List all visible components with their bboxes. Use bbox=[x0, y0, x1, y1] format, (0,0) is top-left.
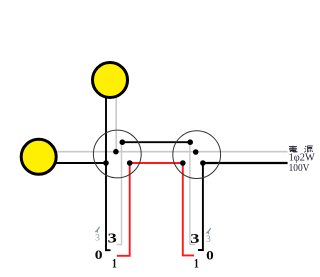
node junction dot left box red bbox=[127, 160, 133, 166]
node junction dot right box red bbox=[180, 160, 186, 166]
node junction dot right box neutral bbox=[193, 149, 199, 155]
svg-text:1: 1 bbox=[112, 257, 117, 271]
svg-text:0: 0 bbox=[206, 249, 214, 263]
power label 源 (kanji drawn) bbox=[304, 146, 312, 153]
svg-text:0: 0 bbox=[95, 248, 103, 262]
wire black lamp2 to node N3 bbox=[56, 162, 106, 164]
lamp イ left bbox=[21, 139, 56, 174]
node junction dot left box neutral bbox=[113, 149, 119, 155]
power label 電 (kanji drawn) bbox=[289, 146, 297, 152]
junction box left bbox=[93, 130, 141, 178]
node junction dot left box traveller bbox=[120, 139, 126, 145]
node junction dot right box black live bbox=[200, 160, 206, 166]
svg-text:3: 3 bbox=[108, 232, 117, 247]
svg-text:3: 3 bbox=[206, 235, 211, 245]
wire black traveller between boxes bbox=[122, 141, 190, 143]
svg-text:1: 1 bbox=[194, 257, 199, 271]
junction box right bbox=[173, 131, 221, 179]
wire gray vertical from lamp1 to node N2 bbox=[115, 97, 117, 152]
wire gray traveller left switch terminal 3 bbox=[117, 142, 122, 244]
wire black lamp1 down to switch terminal 0 left bbox=[106, 97, 111, 250]
wire gray traveller right switch terminal 3 bbox=[190, 142, 195, 244]
lamp イ top bbox=[93, 63, 128, 98]
wire red left switch terminal 1 bbox=[117, 163, 130, 256]
wire black live from power bbox=[203, 162, 288, 164]
svg-text:3: 3 bbox=[95, 233, 100, 243]
node junction dot right box traveller bbox=[187, 139, 193, 145]
svg-text:3: 3 bbox=[190, 232, 199, 247]
label イ left switch (gray katakana) bbox=[95, 227, 99, 233]
wire black right switch terminal 0 bbox=[198, 163, 203, 250]
node junction dot left box lamp blacks bbox=[103, 160, 109, 166]
wire red between boxes bbox=[130, 162, 183, 164]
neutral wire (gray) lamp2 to power bbox=[56, 151, 288, 153]
svg-text:1φ2W: 1φ2W bbox=[289, 153, 316, 164]
label イ right switch (gray katakana) bbox=[206, 228, 210, 234]
wire red right switch terminal 1 bbox=[183, 163, 194, 255]
svg-text:100V: 100V bbox=[289, 163, 311, 174]
